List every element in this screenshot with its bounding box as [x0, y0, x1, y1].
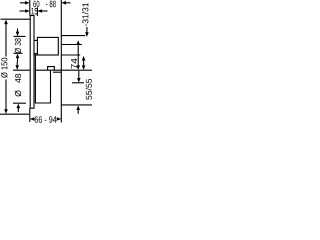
arrow dia48 down-pointing at tick top: [15, 65, 19, 70]
bottom wall extension line: [29, 108, 31, 122]
arrow E down at line E: [77, 78, 81, 83]
label dia 150 rotated: [1, 58, 7, 78]
arrow 15 right-pointing: [25, 9, 30, 13]
front view line A: [61, 35, 85, 37]
front view line B: [61, 69, 92, 71]
front view bottom line F: [61, 104, 92, 106]
dim 74 stem: [77, 45, 79, 66]
dim dia48 stem bottom: [17, 106, 19, 112]
dim dia150 tick bottom: [0, 113, 29, 115]
dim dia150 line: [5, 23, 7, 57]
dim dia38 tick bottom: [14, 52, 23, 54]
arrow 66-94 right-pointing: [57, 117, 62, 121]
label -31/31 rotated: [82, 3, 88, 26]
front view line C: [62, 44, 82, 46]
arrow 60-88 right-pointing at wall: [25, 1, 30, 5]
label dia 48 rotated: [15, 90, 21, 96]
bottom knob cap line: [34, 54, 38, 56]
dim dia48 stem top: [16, 62, 18, 66]
arrow 55/55 down at line B: [82, 65, 86, 70]
dim dia48 tick bottom: [13, 102, 26, 104]
flange line to front view: [35, 69, 61, 71]
bottom knob tab: [48, 67, 55, 71]
arrow 31/31 down at line A: [85, 32, 89, 37]
arrow F up at line F: [76, 105, 80, 110]
dim dia38 tick top: [14, 35, 26, 37]
dim 55/55 upper stem: [83, 60, 85, 66]
arrow dia150 up: [4, 20, 8, 25]
arrow dia38 down-pointing top: [16, 32, 20, 37]
label dia 38 rotated: [15, 38, 21, 53]
arrow dia150 down: [4, 109, 8, 114]
dim dia38 stem top: [17, 29, 19, 34]
arrow dia48 up-pointing at tick bottom: [17, 104, 21, 109]
dim dia38 stem bottom: [17, 56, 19, 62]
dim dia150 tick top: [1, 18, 31, 20]
front view left edge / extension line: [60, 0, 62, 123]
label 55/55 rotated: [86, 79, 92, 100]
dim 60-88 line left: [20, 2, 27, 4]
front view line E short: [72, 82, 84, 84]
top handle collar top: [34, 39, 37, 41]
wall plate side view: [30, 16, 34, 109]
dim dia48 tick top: [13, 69, 30, 71]
dim 31/31 stem: [86, 27, 88, 33]
arrow 15 left-pointing: [37, 9, 42, 13]
top handle collar bottom: [34, 53, 37, 55]
dim 15 line right: [41, 10, 48, 12]
front view line D: [61, 54, 80, 56]
dim E stem from B: [78, 71, 80, 79]
arrow 55/55 up at line D: [82, 56, 86, 61]
arrow 74 up at line A: [76, 40, 80, 44]
dim 60-88 line right: [65, 2, 71, 4]
label 74 rotated: [71, 58, 77, 68]
extension line x37.4: [36, 8, 38, 17]
label 60 - 88: [33, 1, 56, 8]
arrow 66-94 left-pointing: [30, 117, 35, 121]
flange lower edge line: [53, 71, 61, 73]
arrow 74 down at line B: [76, 65, 80, 70]
dim 15 line left: [20, 10, 27, 12]
dim F stem below: [77, 110, 79, 114]
top wall extension line: [29, 0, 31, 16]
arrow dia38 up-pointing bottom: [16, 54, 20, 59]
label 66 - 94: [35, 116, 57, 123]
bottom knob body: [35, 55, 50, 103]
arrow 60-88 left-pointing at x61.4: [61, 1, 66, 5]
top handle knob: [37, 37, 58, 55]
label 15: [31, 8, 37, 15]
